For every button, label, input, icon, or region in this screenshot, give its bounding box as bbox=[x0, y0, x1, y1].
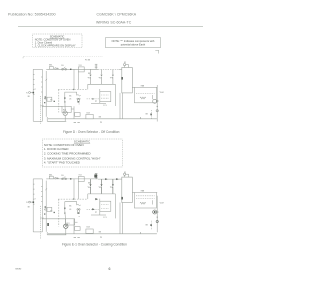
svg-text:FAN: FAN bbox=[141, 84, 145, 87]
switch small box-E bbox=[47, 207, 52, 211]
wire relay feed-long bbox=[42, 218, 65, 220]
svg-text:*DLM: *DLM bbox=[159, 92, 164, 94]
connector P3-E (dark pin) bbox=[121, 197, 123, 200]
wire top of transformer T1-D bbox=[33, 68, 42, 70]
svg-text:N: N bbox=[26, 93, 28, 95]
wire bus riser-E bbox=[114, 194, 116, 219]
fuse F1-E bbox=[49, 176, 53, 179]
wire dashed link-D bbox=[87, 98, 100, 100]
wire dashed rail to control bbox=[98, 69, 119, 71]
svg-text:P7: P7 bbox=[95, 101, 97, 103]
svg-text:T: T bbox=[35, 89, 37, 91]
svg-text:K2: K2 bbox=[124, 172, 126, 174]
svg-text:BK: BK bbox=[146, 224, 149, 226]
connector tab bbox=[155, 50, 158, 53]
junction dot rail-D bbox=[70, 69, 71, 70]
lamp filament cross-D bbox=[64, 112, 67, 115]
svg-text:T: T bbox=[35, 199, 37, 201]
terminal marks below rail-D bbox=[74, 122, 80, 124]
junction blob-D bbox=[33, 92, 35, 94]
wire dash-dot latch line-E bbox=[58, 198, 88, 200]
wire drop from TCO left-D bbox=[73, 69, 75, 89]
transformer winding ticks right-D bbox=[41, 77, 42, 92]
wire lamp return bar-D bbox=[47, 120, 66, 122]
svg-text:*F4: *F4 bbox=[88, 78, 91, 80]
switch selector bridge-D bbox=[65, 92, 77, 99]
header rule bbox=[18, 25, 203, 27]
schematic figure D group bbox=[23, 50, 164, 124]
svg-text:P3 1: P3 1 bbox=[41, 218, 44, 220]
svg-text:BK: BK bbox=[146, 114, 149, 116]
wire drop to rail-E bbox=[73, 219, 75, 234]
svg-text:K2: K2 bbox=[124, 62, 126, 64]
wire top rail L1-E bbox=[48, 178, 99, 180]
lamp oven light OL-E bbox=[64, 224, 68, 228]
switch bank SW-B-E bbox=[77, 209, 78, 210]
wire transformer bottom-D bbox=[33, 120, 42, 122]
junction dark dot SW-B-D bbox=[78, 101, 79, 102]
svg-text:1. DOOR CLOSED: 1. DOOR CLOSED bbox=[44, 147, 69, 151]
wire into control board bbox=[119, 178, 122, 180]
wire top rail L1-D bbox=[48, 68, 99, 70]
wire horizontal y103-E bbox=[91, 214, 106, 216]
svg-text:2. COOKING TIME PROGRAMMED: 2. COOKING TIME PROGRAMMED bbox=[44, 152, 91, 156]
wire vertical at x46-D bbox=[45, 71, 47, 117]
wire dashed inside fan box-E bbox=[136, 198, 155, 200]
wire lamp leg lower-D bbox=[64, 116, 66, 122]
wire bbox=[75, 221, 78, 223]
wire bbox=[124, 66, 126, 68]
junction blob a-D bbox=[64, 97, 65, 99]
svg-text:TCO: TCO bbox=[79, 175, 83, 177]
junction blob-E bbox=[33, 201, 35, 203]
wire bus drop-D bbox=[87, 84, 89, 89]
svg-text:DS: DS bbox=[61, 175, 63, 177]
switch lock plunger-E bbox=[156, 220, 158, 222]
wire bbox=[128, 65, 130, 68]
wire box feed right-D bbox=[155, 86, 158, 88]
wire dashed in sensor box2-E bbox=[101, 208, 109, 210]
wire dashed in sensor box2-D bbox=[101, 97, 109, 99]
switch F2-D (asterisk component) bbox=[101, 70, 103, 75]
switch lamp SW-D bbox=[75, 113, 81, 117]
switch door DS-E blade bbox=[63, 177, 65, 179]
wire bus riser-D bbox=[114, 84, 116, 106]
junction blob b-D bbox=[64, 101, 65, 102]
transformer winding ticks left-D bbox=[33, 75, 34, 95]
svg-text:BK: BK bbox=[28, 96, 31, 98]
wire lamp leg upper-E bbox=[65, 210, 66, 224]
junction tick on rail-E bbox=[140, 232, 142, 234]
switch selector bridge-E bbox=[65, 202, 77, 211]
junction dot sensor feed-E bbox=[88, 182, 89, 183]
boundary dashed vertical-E bbox=[40, 206, 42, 239]
junction cross-E bbox=[57, 177, 59, 179]
connector CN1-D bbox=[95, 64, 98, 69]
svg-text:*F2: *F2 bbox=[99, 78, 102, 80]
connector CN1-E energized blob bbox=[94, 175, 97, 178]
switch bank SW-B-D bbox=[77, 98, 78, 99]
svg-text:MDL: MDL bbox=[49, 174, 52, 176]
wire lamp return drop-E bbox=[46, 232, 48, 235]
resistor heating element R1-E bbox=[140, 202, 146, 204]
wire lamp leg lower-E bbox=[65, 228, 67, 234]
junction dot chain-E bbox=[157, 217, 158, 218]
svg-text:P7: P7 bbox=[95, 212, 97, 214]
module fan box-D bbox=[134, 87, 156, 103]
svg-text:2. CLOCK APPEARS ON DISPLAY: 2. CLOCK APPEARS ON DISPLAY bbox=[35, 43, 76, 47]
wire box feed left-D bbox=[132, 86, 134, 88]
switch small box-D bbox=[47, 97, 52, 101]
svg-text:4. "START" PAD TOUCHED: 4. "START" PAD TOUCHED bbox=[44, 161, 80, 165]
wire bbox=[46, 68, 47, 70]
svg-text:P1 BK: P1 BK bbox=[85, 60, 91, 62]
wire bottom rail N-D bbox=[48, 118, 157, 120]
wire box feed right-E bbox=[155, 192, 158, 194]
lamp oven light OL-D bbox=[63, 111, 67, 115]
wire relay feed-long bbox=[42, 105, 62, 107]
junction tick dark-D bbox=[44, 96, 47, 98]
switch contact squiggle-E bbox=[77, 204, 81, 206]
note box asterisk legend bbox=[106, 38, 161, 48]
switch F3-E (asterisk component) bbox=[112, 179, 114, 184]
fuse F1-D bbox=[49, 67, 53, 70]
transformer T1-E right winding bbox=[41, 179, 43, 232]
svg-text:MDL: MDL bbox=[49, 65, 52, 67]
wire lamp return bar-E bbox=[47, 234, 66, 236]
junction dot-D bbox=[150, 114, 152, 116]
junction dot P6-E bbox=[54, 212, 55, 213]
wire neutral to winding bbox=[30, 201, 33, 203]
svg-text:WIRING SC-60AA-TC: WIRING SC-60AA-TC bbox=[96, 21, 132, 25]
wire dash-dot latch line-D bbox=[58, 89, 88, 91]
wire riser a-D bbox=[119, 93, 121, 119]
schematic figure E group bbox=[26, 172, 164, 239]
svg-text:6: 6 bbox=[109, 267, 111, 271]
switch door DS-E contact b bbox=[65, 178, 67, 180]
wire door lock chain-E bbox=[156, 196, 158, 233]
wire dashed in sensor box-E bbox=[101, 204, 109, 206]
boundary dashed vertical b-E bbox=[58, 199, 60, 226]
wire dashed drop-E bbox=[151, 221, 153, 230]
boundary hook left end bbox=[23, 57, 24, 59]
switch door DS-D contact a bbox=[62, 68, 64, 70]
svg-text:*F4: *F4 bbox=[88, 187, 91, 189]
boundary dashed vertical b-D bbox=[58, 90, 60, 113]
wire lamp leg upper-D bbox=[64, 100, 66, 112]
motor M1-E bbox=[153, 210, 157, 214]
wire riser b-E bbox=[122, 203, 124, 234]
svg-text:P9: P9 bbox=[100, 237, 102, 239]
console boundary dashed line bbox=[24, 56, 103, 58]
svg-text:*F3: *F3 bbox=[110, 187, 113, 189]
switch door lock DLS-E bbox=[86, 229, 93, 233]
capacitor C1-D bbox=[156, 101, 158, 102]
svg-text:DS: DS bbox=[61, 65, 63, 67]
switch F3-D (asterisk component) bbox=[112, 70, 114, 75]
switch door DS-D blade bbox=[63, 67, 65, 69]
wire vertical x100-D bbox=[99, 89, 101, 103]
junction dark dot SW-B-E bbox=[78, 212, 79, 213]
connector CN1-E bbox=[95, 174, 98, 179]
junction dot-E bbox=[150, 224, 152, 226]
junction cross-D bbox=[57, 68, 59, 70]
wire riser a-E bbox=[119, 203, 121, 234]
svg-text:DLB: DLB bbox=[87, 227, 91, 229]
transformer T1-E left winding bbox=[32, 179, 34, 232]
svg-text:*F2: *F2 bbox=[99, 187, 102, 189]
wire into control board bbox=[119, 69, 122, 71]
svg-text:CGMC96K \ CPMC96KA: CGMC96K \ CPMC96KA bbox=[97, 13, 137, 17]
wire box feed left-E bbox=[132, 192, 134, 194]
wire transformer bottom-E bbox=[33, 231, 42, 233]
switch contact squiggle-D bbox=[77, 95, 81, 97]
svg-text:*: * bbox=[79, 216, 80, 219]
svg-text:P4: P4 bbox=[44, 99, 46, 101]
wire bbox=[46, 178, 47, 180]
svg-text:*F3: *F3 bbox=[110, 78, 113, 80]
junction dot chain-D bbox=[157, 106, 158, 107]
wire rail to control bbox=[98, 178, 119, 180]
switch lock plunger-D bbox=[156, 110, 158, 112]
wire dashed row2-E bbox=[136, 195, 155, 197]
wire bbox=[124, 175, 126, 177]
wire dashed drop-D bbox=[151, 110, 153, 119]
wire bbox=[126, 173, 129, 175]
thermal cutout TCO-E bbox=[78, 177, 84, 182]
junction blob b-E bbox=[64, 213, 65, 214]
svg-text:*DLM: *DLM bbox=[159, 203, 164, 205]
wire motor feed-E bbox=[152, 200, 154, 204]
wire bbox=[128, 174, 130, 177]
junction dot rail-E bbox=[70, 178, 71, 179]
svg-text:N: N bbox=[26, 202, 28, 204]
switch F4-D (asterisk component) bbox=[90, 70, 92, 75]
thermal cutout TCO-D bbox=[78, 67, 84, 72]
svg-text:FAN: FAN bbox=[141, 190, 145, 193]
svg-text:potential above Earth: potential above Earth bbox=[121, 43, 146, 47]
wire motor feed-D bbox=[152, 95, 154, 99]
connector P3-D (dark pin) bbox=[121, 77, 123, 80]
transformer T1-D right winding bbox=[41, 69, 43, 121]
wire door lock chain-D bbox=[156, 85, 158, 122]
terminal TB-D neutral circle bbox=[29, 92, 31, 94]
arrow energized latch-E bbox=[95, 198, 98, 200]
module sensor box-E bbox=[100, 201, 111, 211]
switch door DS-D contact b bbox=[65, 68, 67, 70]
junction energized blob-E bbox=[47, 223, 49, 226]
svg-text:LS: LS bbox=[69, 98, 72, 100]
arrow current-E bbox=[92, 208, 95, 210]
break tick on x46-E bbox=[45, 189, 47, 191]
resistor heating element R1-D bbox=[140, 97, 146, 99]
wire riser b-D bbox=[122, 93, 124, 119]
junction tick on rail-D bbox=[140, 117, 142, 119]
svg-text:P9: P9 bbox=[100, 122, 102, 124]
wire dashed in sensor box-D bbox=[101, 94, 109, 96]
junction dot sensor feed-D bbox=[88, 73, 89, 74]
svg-text:B5: B5 bbox=[69, 206, 71, 208]
junction dot P6-D bbox=[54, 101, 55, 102]
svg-text:DLB: DLB bbox=[87, 112, 91, 114]
transformer winding ticks left-E bbox=[33, 184, 34, 204]
wire bbox=[126, 64, 129, 66]
relay K1-E bbox=[66, 219, 75, 225]
wire bottom rail N-E bbox=[48, 233, 157, 235]
svg-text:TCO: TCO bbox=[79, 65, 83, 67]
svg-text:1 2 3: 1 2 3 bbox=[103, 105, 107, 107]
break tick on x46-D bbox=[45, 79, 47, 81]
svg-text:P4: P4 bbox=[44, 209, 46, 211]
svg-text:LS: LS bbox=[69, 209, 72, 211]
junction dark dot2-E bbox=[44, 213, 45, 214]
svg-text:1 2 3: 1 2 3 bbox=[103, 217, 107, 219]
arrow current-D bbox=[92, 98, 95, 100]
svg-text:BK: BK bbox=[99, 116, 102, 118]
boundary dashed vertical-D bbox=[40, 96, 42, 124]
motor M1-E energized mark bbox=[154, 211, 156, 213]
junction tick dark-E bbox=[44, 206, 47, 208]
svg-text:Figure D : Oven Selector - Off: Figure D : Oven Selector - Off Condition bbox=[63, 130, 120, 134]
svg-text:59590: 59590 bbox=[15, 268, 22, 270]
svg-text:NOTE: "*" Indicates components: NOTE: "*" Indicates components with bbox=[112, 39, 155, 43]
wire sensor bus-D bbox=[88, 83, 116, 85]
lamp filament cross-E bbox=[64, 225, 67, 228]
switch F4-E (asterisk component) bbox=[90, 179, 92, 184]
junction dot latch-D bbox=[73, 89, 74, 90]
wire dashed inside fan box-D bbox=[136, 92, 155, 94]
arrow current rail a-E bbox=[105, 178, 107, 180]
arrow current rail b-E bbox=[116, 178, 118, 180]
svg-text:P3 1: P3 1 bbox=[41, 106, 44, 108]
relay contact on EOC-E bbox=[124, 173, 126, 175]
junction dark dot2-D bbox=[44, 102, 45, 103]
control board EOC-D bbox=[122, 68, 133, 93]
svg-text:BK: BK bbox=[28, 206, 31, 208]
control board EOC-E bbox=[122, 177, 133, 202]
wire horizontal y103-D bbox=[91, 102, 106, 104]
note box schematic condition (figure E) bbox=[42, 139, 122, 167]
wire neutral to winding bbox=[30, 92, 33, 94]
switch door DS-E contact a bbox=[62, 178, 64, 180]
relay contact on EOC-D bbox=[124, 64, 126, 66]
module fan box-E bbox=[134, 193, 156, 209]
wire bus drop-E bbox=[87, 194, 89, 199]
wire sensor bus-E bbox=[88, 193, 116, 195]
junction dot latch-E bbox=[73, 198, 74, 199]
wire drop to rail-D bbox=[73, 106, 75, 119]
wire drop from TCO mid-D bbox=[77, 72, 79, 90]
svg-text:B5: B5 bbox=[69, 96, 71, 98]
note box schematic condition (figure D) bbox=[33, 34, 83, 48]
terminal marks below rail-E bbox=[74, 237, 80, 239]
terminal TB-E neutral circle bbox=[29, 201, 31, 203]
module sensor box-D bbox=[100, 92, 111, 102]
svg-text:Publication No: 5995434200: Publication No: 5995434200 bbox=[8, 13, 56, 17]
transformer T1-D left winding bbox=[32, 69, 34, 121]
wire lamp return drop-D bbox=[46, 117, 48, 121]
wire vertical at x46-E bbox=[45, 181, 47, 232]
contact point-D bbox=[55, 68, 57, 70]
switch F2-E (asterisk component) bbox=[101, 179, 103, 184]
capacitor C1-E bbox=[156, 211, 158, 212]
switch door lock DLS-D bbox=[86, 114, 93, 118]
wire drop from TCO left-E bbox=[73, 179, 75, 199]
relay K1-D bbox=[62, 106, 71, 112]
wire dashed link-E bbox=[87, 209, 100, 211]
svg-text:BK: BK bbox=[99, 231, 102, 233]
junction blob a-E bbox=[64, 208, 65, 210]
svg-text:*: * bbox=[79, 104, 80, 107]
switch lamp SW-E bbox=[75, 227, 81, 231]
contact point-E bbox=[55, 177, 57, 179]
wire top of transformer T1-E bbox=[33, 178, 42, 180]
wire bbox=[71, 108, 74, 110]
transformer winding ticks right-E bbox=[41, 187, 42, 202]
motor M1-D bbox=[153, 99, 157, 103]
wire vertical x100-E bbox=[99, 199, 101, 215]
wire drop from TCO mid-E bbox=[77, 182, 79, 200]
svg-text:Figure E-1 Oven Selector - Coo: Figure E-1 Oven Selector - Cooking Condi… bbox=[62, 243, 127, 247]
